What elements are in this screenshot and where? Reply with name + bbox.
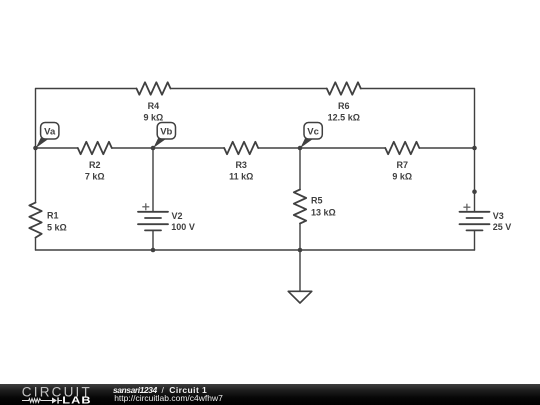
svg-text:http://circuitlab.com/c4wfhw7: http://circuitlab.com/c4wfhw7 bbox=[114, 393, 223, 403]
svg-text:9 kΩ: 9 kΩ bbox=[392, 172, 412, 182]
resistor R2 bbox=[78, 142, 112, 154]
svg-text:V2: V2 bbox=[172, 211, 183, 221]
svg-text:100 V: 100 V bbox=[171, 222, 195, 232]
battery V2 plus sign bbox=[142, 203, 149, 210]
resistor R3 bbox=[224, 142, 258, 154]
svg-text:5 kΩ: 5 kΩ bbox=[47, 222, 67, 232]
node junction dot Va bbox=[33, 146, 38, 151]
node junction dot right mid bbox=[472, 146, 477, 151]
resistor R5 bbox=[294, 190, 306, 224]
svg-text:LAB: LAB bbox=[62, 396, 91, 405]
wire left rail to bottom bbox=[35, 238, 37, 250]
svg-text:25 V: 25 V bbox=[493, 222, 512, 232]
wire Vc branch upper bbox=[299, 148, 301, 190]
svg-text:Vc: Vc bbox=[307, 127, 319, 138]
resistor R7 bbox=[385, 142, 419, 154]
svg-text:R5: R5 bbox=[311, 196, 323, 206]
wire middle rail seg4 bbox=[419, 147, 474, 149]
battery V2 bbox=[138, 212, 168, 231]
node junction dot V2 bottom bbox=[151, 248, 156, 253]
node junction dot ground bbox=[298, 248, 303, 253]
svg-text:R7: R7 bbox=[397, 160, 409, 170]
logo resistor squiggle bbox=[22, 399, 62, 403]
wire top rail right segment bbox=[361, 89, 475, 212]
node tag Vb bbox=[153, 123, 175, 149]
svg-text:V3: V3 bbox=[493, 211, 504, 221]
svg-text:R3: R3 bbox=[235, 160, 247, 170]
logo diode bbox=[52, 397, 59, 403]
node tag Vc bbox=[300, 123, 322, 149]
svg-text:R2: R2 bbox=[89, 160, 101, 170]
wire middle rail seg2 bbox=[112, 147, 224, 149]
svg-text:R1: R1 bbox=[47, 211, 59, 221]
wire ground stem bbox=[299, 250, 301, 291]
node junction dot V3 top bbox=[472, 189, 477, 194]
svg-text:12.5 kΩ: 12.5 kΩ bbox=[328, 113, 360, 123]
wire Vc branch lower bbox=[299, 224, 301, 251]
svg-text:Vb: Vb bbox=[160, 127, 172, 138]
ground bbox=[288, 291, 312, 303]
node junction dot Vc bbox=[298, 146, 303, 151]
node junction dot Vb bbox=[151, 146, 156, 151]
wire V3 bottom lead bbox=[474, 230, 476, 250]
resistor R4 bbox=[137, 82, 171, 94]
wire middle rail seg3 bbox=[258, 147, 385, 149]
wire left rail lower bbox=[35, 148, 37, 203]
wire middle rail seg1 bbox=[36, 147, 78, 149]
wire top rail left segment bbox=[36, 89, 137, 149]
battery V3 plus sign bbox=[463, 204, 470, 211]
svg-text:R6: R6 bbox=[338, 101, 350, 111]
resistor R1 bbox=[29, 203, 41, 238]
resistor R6 bbox=[327, 82, 361, 94]
footer bar bbox=[0, 384, 540, 405]
svg-text:13 kΩ: 13 kΩ bbox=[311, 207, 336, 217]
svg-text:R4: R4 bbox=[148, 101, 160, 111]
node tag Va bbox=[36, 123, 59, 149]
wire bottom rail bbox=[36, 249, 475, 251]
svg-text:7 kΩ: 7 kΩ bbox=[85, 172, 105, 182]
svg-text:11 kΩ: 11 kΩ bbox=[229, 172, 253, 182]
wire Vb branch upper bbox=[152, 148, 154, 212]
wire Vb branch lower bbox=[152, 230, 154, 250]
svg-text:Va: Va bbox=[44, 127, 56, 138]
battery V3 bbox=[460, 212, 490, 231]
wire top rail middle segment bbox=[171, 88, 327, 90]
svg-text:9 kΩ: 9 kΩ bbox=[144, 113, 164, 123]
